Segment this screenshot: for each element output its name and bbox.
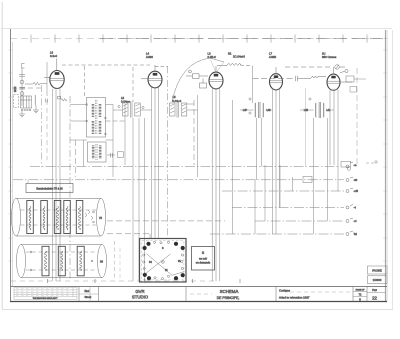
svg-text:L4B: L4B (304, 110, 309, 112)
svg-text:STUDIO: STUDIO (132, 295, 149, 300)
svg-text:Tel: Tel (354, 232, 358, 236)
svg-text:L4L: L4L (327, 110, 332, 112)
svg-text:72: 72 (359, 294, 362, 297)
svg-text:DE PRINCIPE,: DE PRINCIPE, (217, 296, 240, 300)
svg-text:GVR: GVR (135, 289, 144, 294)
svg-text:S: S (202, 251, 205, 255)
svg-text:ne noir: ne noir (199, 257, 207, 261)
svg-text:75: 75 (99, 216, 102, 220)
svg-text:SCHEMA: SCHEMA (220, 289, 239, 294)
svg-text:M1N: M1N (14, 87, 17, 92)
svg-text:on demande: on demande (196, 261, 211, 265)
svg-text:0.3+0: 0.3+0 (50, 54, 58, 58)
svg-text:880 Curses: 880 Curses (322, 55, 337, 59)
svg-text:-4: -4 (354, 206, 357, 210)
svg-text:S: S (162, 248, 164, 250)
svg-text:0.2B-3: 0.2B-3 (208, 55, 217, 59)
svg-text:0.04+0: 0.04+0 (173, 99, 182, 103)
svg-text:A4S6: A4S6 (146, 55, 153, 59)
svg-text:L4P: L4P (243, 110, 248, 112)
svg-text:+4: +4 (354, 219, 358, 223)
svg-text:0.04mc: 0.04mc (121, 100, 131, 104)
svg-text:S4: S4 (149, 262, 153, 264)
svg-text:Bandschakelst 75 à 36: Bandschakelst 75 à 36 (36, 187, 63, 191)
svg-text:22: 22 (372, 296, 377, 301)
svg-text:Part: Part (372, 289, 377, 292)
svg-text:Blad: Blad (85, 291, 90, 293)
svg-text:+a: +a (354, 164, 358, 167)
svg-text:PAUSE: PAUSE (372, 268, 382, 272)
svg-text:Ariad to relevation 1927: Ariad to relevation 1927 (279, 296, 310, 300)
svg-text:PAGE OF: PAGE OF (356, 289, 366, 292)
svg-text:36: 36 (100, 260, 103, 264)
svg-text:S1: S1 (228, 52, 232, 56)
svg-text:-90: -90 (354, 178, 358, 182)
svg-text:A4SB: A4SB (269, 55, 276, 59)
svg-text:2C.04mH: 2C.04mH (233, 55, 245, 59)
svg-text:Strook: Strook (85, 296, 92, 299)
svg-text:THELEMOSTRD GELIFLASTT: THELEMOSTRD GELIFLASTT (33, 297, 59, 300)
svg-text:Corriges: Corriges (279, 289, 290, 293)
svg-text:+45: +45 (354, 189, 359, 193)
svg-text:1/0606: 1/0606 (373, 278, 382, 282)
svg-text:L4B: L4B (267, 110, 272, 112)
